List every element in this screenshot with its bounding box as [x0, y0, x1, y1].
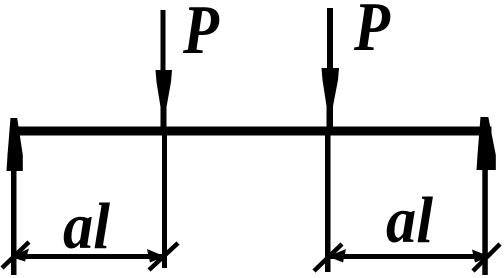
dimension line right (al span): [329, 254, 487, 259]
force arrow P1 (downward load at first point): [156, 10, 173, 132]
beam: [11, 127, 492, 136]
dimension arrow+tick at right end of right span: [472, 244, 500, 271]
reaction arrow right (upward): [477, 117, 496, 275]
reaction arrow left (upward): [7, 118, 23, 275]
dimension arrow+tick at left end of right span: [314, 244, 346, 271]
dimension line left (al span): [13, 254, 164, 259]
wire: extension line below first load point: [162, 135, 167, 268]
svg-text:al: al: [386, 184, 434, 257]
svg-text:P: P: [182, 0, 220, 69]
wire: extension line below second load point: [325, 135, 331, 272]
svg-text:al: al: [63, 190, 111, 263]
svg-text:P: P: [353, 0, 391, 66]
dimension arrow+tick at left end of left span: [2, 242, 29, 268]
force arrow P2 (downward load at second point): [322, 8, 340, 132]
dimension arrow+tick at right end of left span: [147, 243, 178, 270]
